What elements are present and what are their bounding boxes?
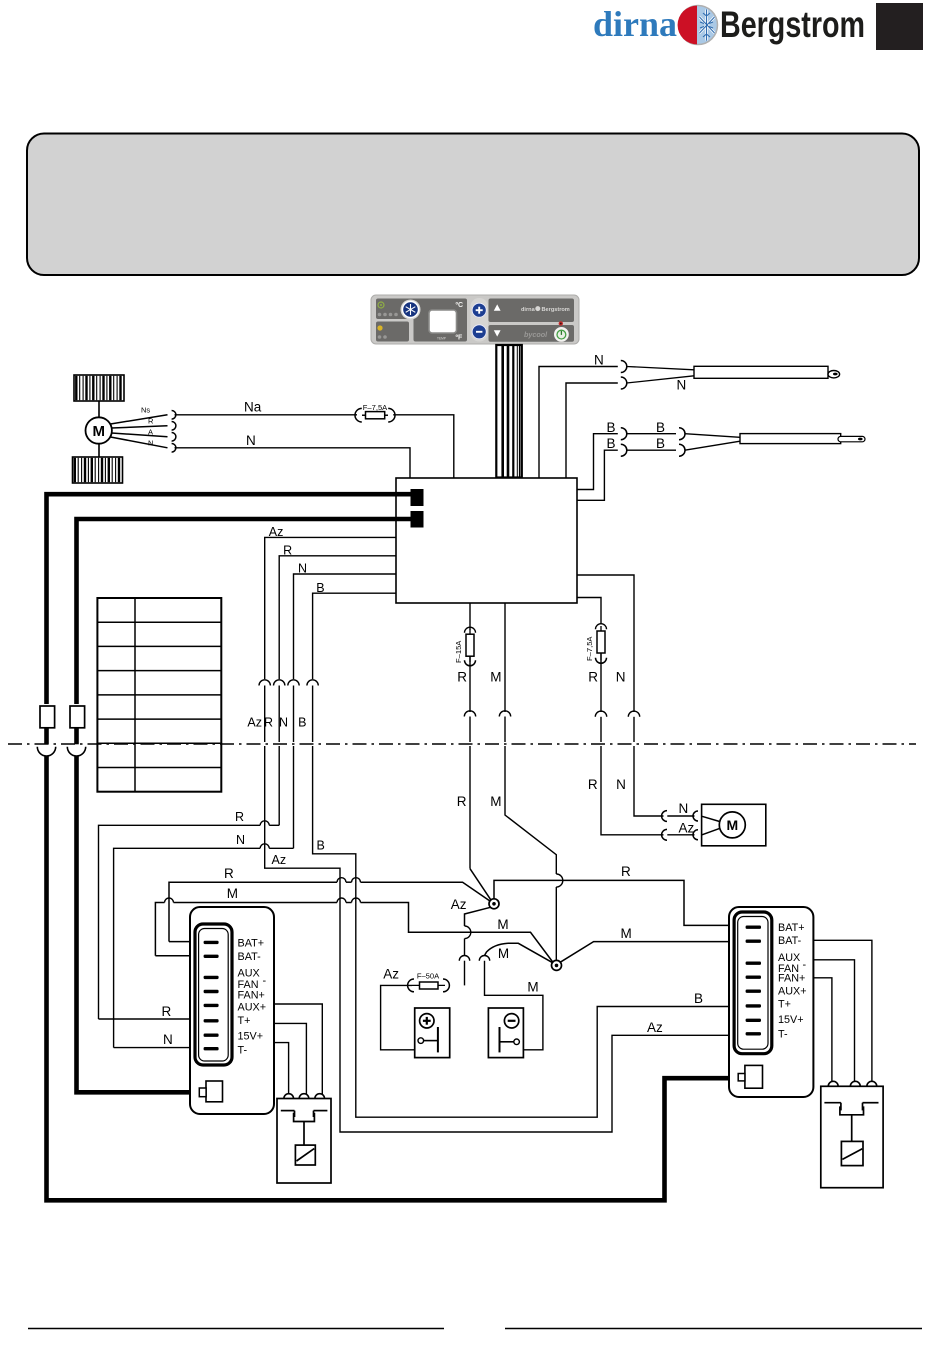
svg-text:B: B	[316, 581, 324, 595]
wire R from ECU	[279, 556, 396, 679]
right block power connector	[745, 1065, 763, 1088]
electronic control unit box	[396, 478, 577, 603]
probe sensor 1 wires N N	[539, 367, 618, 479]
right relay coil	[841, 1141, 863, 1165]
left relay box	[277, 1099, 331, 1184]
svg-text:M: M	[527, 980, 538, 995]
svg-text:M: M	[227, 886, 238, 901]
svg-text:BAT+: BAT+	[238, 938, 265, 950]
wire M from ECU	[504, 603, 506, 712]
wire M from junction 2 to battery minus	[508, 943, 553, 963]
fuse F-7,5A (condenser)	[585, 636, 594, 661]
right block labels	[778, 922, 807, 1040]
motor leads Ns R A N	[111, 415, 168, 424]
wire Az from junction 1 down to fuse F-50A	[465, 907, 491, 926]
svg-text:R: R	[162, 1004, 172, 1019]
svg-text:-: -	[263, 975, 267, 987]
svg-text:F–7,5A: F–7,5A	[585, 636, 594, 661]
junction 1 (Az node)	[489, 899, 499, 909]
ECU terminal 2	[411, 511, 424, 528]
chassis separation dash-dot line	[8, 743, 916, 745]
wire N to condenser motor	[634, 746, 664, 816]
wire R right from junction 1 to right block BAT+	[494, 880, 745, 925]
svg-text:N: N	[236, 833, 245, 847]
motor M1 evaporator	[98, 401, 100, 418]
svg-text:dirna: dirna	[521, 307, 536, 313]
svg-text:R: R	[588, 669, 598, 684]
thick supply wire 2	[77, 519, 411, 704]
battery minus box	[488, 1008, 523, 1058]
wire Na to ECU	[393, 415, 454, 478]
svg-text:N: N	[616, 777, 626, 792]
wire R via fuse F-7,5A (condenser)	[577, 598, 601, 625]
wire Az to condenser motor	[601, 746, 664, 835]
fuse holder 2	[70, 706, 85, 728]
left block labels	[238, 938, 267, 1057]
svg-text:R: R	[621, 864, 631, 879]
condenser motor M2	[702, 804, 766, 846]
svg-text:ºC: ºC	[456, 302, 464, 309]
svg-text:B: B	[607, 420, 616, 435]
svg-text:N: N	[677, 378, 687, 393]
control panel faceplate	[371, 295, 579, 344]
wire B lower run	[313, 746, 745, 1117]
svg-text:R: R	[264, 716, 273, 730]
right block pins	[746, 926, 761, 1036]
wire B from ECU	[313, 593, 396, 679]
svg-text:BAT-: BAT-	[238, 951, 262, 963]
left block wires to relay	[274, 1004, 322, 1094]
svg-text:N: N	[298, 562, 307, 576]
thick supply wire 1	[47, 494, 411, 704]
right block wires to relay	[813, 940, 872, 1081]
wire R from F-15A into junction	[469, 746, 471, 869]
svg-text:R: R	[224, 866, 234, 881]
svg-text:15V+: 15V+	[778, 1014, 804, 1026]
svg-text:B: B	[298, 716, 306, 730]
svg-text:Az: Az	[383, 967, 399, 982]
wire Az from ECU	[265, 537, 396, 679]
svg-text:AUX+: AUX+	[778, 985, 807, 997]
svg-text:Az: Az	[272, 853, 287, 867]
svg-text:FAN+: FAN+	[238, 989, 265, 1001]
svg-text:N: N	[594, 353, 604, 368]
svg-text:M: M	[490, 794, 501, 809]
right relay box	[821, 1086, 883, 1187]
junction 2 (M node)	[552, 960, 562, 970]
svg-text:M: M	[490, 669, 501, 684]
svg-text:R: R	[283, 543, 292, 557]
svg-text:F–50A: F–50A	[417, 972, 440, 981]
svg-text:R: R	[148, 416, 154, 425]
left connector block	[190, 907, 274, 1114]
svg-text:N: N	[246, 433, 256, 448]
grey instruction box	[27, 134, 919, 276]
svg-text:Ns: Ns	[141, 405, 150, 414]
svg-text:F–15A: F–15A	[454, 640, 463, 663]
svg-text:N: N	[616, 669, 626, 684]
svg-text:N: N	[679, 801, 689, 816]
svg-text:AUX+: AUX+	[238, 1001, 267, 1013]
wire Na	[175, 414, 358, 416]
svg-text:F–7,5A: F–7,5A	[363, 403, 388, 412]
footer rule left	[28, 1328, 444, 1330]
svg-text:T+: T+	[238, 1015, 251, 1027]
blower fan block bottom	[73, 457, 123, 483]
svg-text:FAN+: FAN+	[778, 973, 805, 985]
svg-text:Az: Az	[269, 525, 284, 539]
svg-text:N: N	[148, 438, 153, 447]
wire N lower run to T-	[293, 746, 295, 848]
svg-text:B: B	[317, 838, 325, 852]
svg-text:T+: T+	[778, 998, 791, 1010]
wire M from junction 2 to right block BAT-	[560, 942, 745, 963]
svg-text:T-: T-	[778, 1028, 788, 1040]
svg-text:M: M	[621, 926, 632, 941]
svg-text:15V+: 15V+	[238, 1030, 264, 1042]
svg-text:R: R	[457, 794, 467, 809]
wire N from ECU	[294, 574, 397, 679]
wire M horizontal to junction (from left block BAT-)	[155, 903, 164, 956]
svg-text:BAT-: BAT-	[778, 935, 802, 947]
svg-text:B: B	[656, 420, 665, 435]
blower fan block top	[74, 375, 124, 401]
wire N	[175, 448, 411, 478]
svg-text:AUX: AUX	[778, 952, 800, 964]
left relay contact symbol	[281, 1110, 295, 1112]
svg-text:Az: Az	[647, 1020, 663, 1035]
probe sensor 1 body	[627, 367, 694, 370]
svg-text:T-: T-	[238, 1044, 248, 1056]
svg-text:R: R	[457, 669, 467, 684]
battery plus box	[415, 1008, 450, 1058]
svg-text:AUX: AUX	[238, 967, 260, 979]
svg-text:R: R	[588, 777, 598, 792]
svg-text:N: N	[279, 716, 288, 730]
left relay coil	[295, 1145, 315, 1165]
svg-text:M: M	[497, 917, 508, 932]
svg-text:B: B	[656, 436, 665, 451]
wire N to condenser	[577, 575, 634, 712]
svg-text:M: M	[498, 946, 509, 961]
svg-text:Bergstrom: Bergstrom	[542, 307, 570, 313]
probe sensor 2 body	[685, 434, 740, 438]
svg-text:-: -	[803, 959, 807, 971]
svg-text:Az: Az	[679, 820, 695, 835]
svg-text:M: M	[92, 423, 105, 440]
svg-text:M: M	[726, 817, 738, 833]
svg-text:Na: Na	[244, 400, 262, 415]
wire Az lower run	[265, 746, 745, 1132]
left block pins	[204, 941, 219, 1051]
svg-text:B: B	[607, 436, 616, 451]
ECU terminal 1	[411, 489, 424, 506]
fuse holder 1	[40, 706, 55, 728]
logo circle emblem	[678, 6, 718, 45]
svg-text:dirna: dirna	[593, 4, 677, 44]
svg-text:R: R	[235, 810, 244, 824]
left block power connector	[206, 1081, 223, 1102]
wire M from ECU down to junction 2	[505, 746, 556, 874]
svg-text:N: N	[163, 1032, 173, 1047]
svg-text:B: B	[694, 991, 703, 1006]
right relay contact symbol	[824, 1102, 841, 1104]
probe sensor 2 wires B B	[577, 434, 618, 490]
svg-text:Az: Az	[247, 716, 262, 730]
wire R horizontal to junction (from left block BAT+)	[169, 882, 337, 941]
svg-text:Bergstrom: Bergstrom	[720, 4, 865, 45]
svg-text:TEMP: TEMP	[437, 336, 446, 340]
svg-text:ºF: ºF	[456, 335, 464, 342]
svg-text:BAT+: BAT+	[778, 922, 805, 934]
wire R via fuse F-15A	[469, 603, 471, 630]
legend table	[97, 598, 221, 792]
wire R lower run to T+	[278, 746, 280, 825]
black corner square	[876, 3, 923, 50]
ribbon cable	[496, 345, 522, 478]
svg-text:bycool: bycool	[524, 330, 548, 339]
right connector block	[729, 907, 813, 1097]
svg-text:A: A	[148, 427, 153, 436]
svg-text:Az: Az	[451, 897, 467, 912]
footer rule right	[505, 1328, 922, 1330]
